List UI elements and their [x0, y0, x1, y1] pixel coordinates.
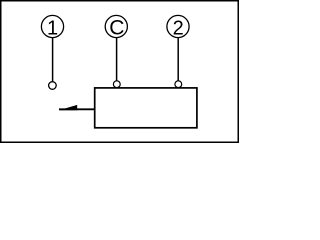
terminal 2 [167, 15, 189, 39]
wire from terminal C [116, 38, 118, 81]
contact node C on element [113, 81, 120, 88]
wiper wire [59, 108, 95, 110]
svg-text:2: 2 [173, 17, 184, 39]
contact node 2 on element [175, 81, 182, 88]
open contact node 1 [49, 82, 57, 90]
resistive element body [95, 88, 197, 128]
wire from terminal 1 [52, 38, 54, 82]
svg-text:1: 1 [47, 17, 58, 39]
wiper arrowhead [59, 105, 77, 110]
svg-text:C: C [109, 17, 124, 40]
wire from terminal 2 [177, 38, 179, 81]
terminal 1 [41, 15, 63, 39]
terminal C (wiper) [105, 15, 127, 39]
